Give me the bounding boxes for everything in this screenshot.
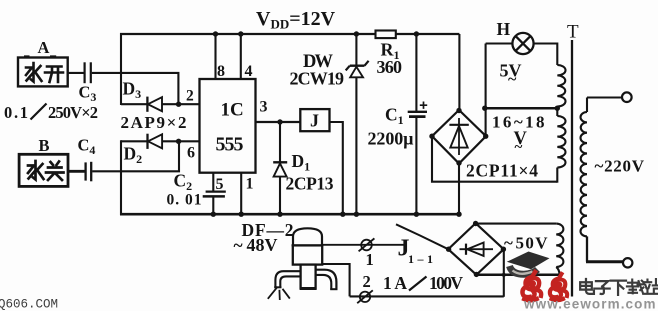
- label 水开 (water-on): [26, 63, 42, 82]
- wire lamp riser: [485, 44, 487, 109]
- node C1 rail junction: [414, 31, 419, 36]
- capacitor C4: [84, 162, 86, 180]
- svg-text:1–1: 1–1: [408, 252, 433, 266]
- wire bridge2 right to fuse: [503, 249, 505, 297]
- node bridge1 top: [456, 108, 461, 113]
- wire C3 to pin2 drop: [92, 73, 179, 104]
- wire C2 to ground: [212, 196, 214, 215]
- wire B to C4: [68, 170, 85, 173]
- terminal top: [622, 92, 632, 102]
- connector slash 1: [361, 240, 372, 251]
- bridge rectifier 2CP11x4 diamond: [432, 110, 486, 164]
- connector slash 2: [360, 292, 370, 302]
- node DW ground junction: [354, 212, 359, 217]
- wire primary bottom lead: [586, 260, 623, 263]
- svg-text:250V×2: 250V×2: [48, 103, 98, 122]
- diode inside bridge2: [460, 248, 494, 250]
- bell striker marks: [268, 287, 290, 300]
- node pin1 ground junction: [239, 212, 244, 217]
- label 水关 (water-off): [28, 161, 44, 180]
- svg-text:0.1: 0.1: [4, 103, 28, 122]
- capacitor C2: [206, 191, 226, 193]
- wire bridge1 AC left to winding bottom: [432, 136, 557, 182]
- wire bell top lead: [322, 244, 404, 246]
- svg-text:48V: 48V: [247, 235, 278, 255]
- lamp H: [512, 33, 533, 54]
- svg-text:B: B: [39, 136, 50, 155]
- switch A box top nubs: [24, 55, 56, 58]
- node tap left junction: [482, 106, 487, 111]
- svg-text:1: 1: [366, 250, 374, 269]
- switch A box: [18, 58, 68, 87]
- bell base line: [292, 244, 324, 246]
- wire 5V tap line: [485, 107, 558, 110]
- zener diode DW: [355, 34, 357, 65]
- capacitor C1 polarized: [415, 34, 417, 111]
- wire D2 cathode to ground rail: [120, 140, 122, 215]
- wire lamp right lead: [534, 42, 558, 44]
- svg-text:2: 2: [363, 272, 371, 291]
- svg-text:A: A: [38, 38, 50, 57]
- transformer core: [571, 40, 573, 297]
- svg-text:2CW19: 2CW19: [290, 69, 345, 89]
- svg-text:1: 1: [246, 175, 254, 192]
- op-amp U1 555 timer box: [200, 79, 256, 173]
- transformer winding 50V: [556, 224, 563, 267]
- svg-text:50V: 50V: [516, 234, 549, 253]
- diode D1: [279, 122, 281, 162]
- wire VDD-rail left drop to D3 cathode: [120, 33, 122, 105]
- watermark bug 2: [550, 274, 567, 300]
- svg-text:2: 2: [186, 88, 194, 105]
- wire VDD rail y=34: [120, 33, 459, 35]
- diode D3: [146, 97, 148, 112]
- node pin4 rail junction: [238, 31, 243, 36]
- svg-text:www.eeworm.com: www.eeworm.com: [523, 297, 658, 311]
- node bridge1 ground junction: [456, 212, 461, 217]
- diode inside bridge1: [458, 118, 460, 155]
- node D1 ground junction: [277, 212, 282, 217]
- svg-text:2CP13: 2CP13: [286, 174, 334, 194]
- node bridge2 right: [501, 247, 506, 252]
- node bridge2 left: [446, 247, 451, 252]
- resistor R1: [376, 31, 396, 39]
- svg-text:4: 4: [245, 63, 253, 80]
- wire ground rail: [120, 213, 459, 216]
- wire relay J to ground drop: [330, 122, 343, 215]
- wire pin 8 drop: [214, 34, 216, 79]
- svg-text:1C: 1C: [221, 100, 244, 121]
- wire bridge2 bottom to winding: [476, 274, 559, 277]
- wire D2 cathode stub: [121, 140, 148, 142]
- wire C4 to pin6 riser: [92, 141, 179, 172]
- svg-text:Q606.COM: Q606.COM: [0, 298, 58, 311]
- node D1 junction: [277, 119, 282, 124]
- wire pin 5 drop: [212, 173, 214, 191]
- transformer winding 16-18V upper: [556, 43, 558, 66]
- node bridge2 bottom: [474, 272, 479, 277]
- wire pin 3 to relay J: [256, 121, 301, 123]
- node C1 ground junction: [414, 212, 419, 217]
- svg-text:VDD=12V: VDD=12V: [256, 8, 336, 32]
- svg-text:555: 555: [216, 133, 244, 155]
- bell stem base: [300, 287, 317, 290]
- node bridge1 left: [429, 134, 434, 139]
- label C1 plus: [420, 102, 427, 109]
- node bridge2 top: [473, 221, 478, 226]
- bridge rectifier 2 diamond: [448, 223, 504, 275]
- wire bridge2 top to 50V winding: [476, 223, 557, 225]
- wire rail to bridge1 plus: [458, 34, 460, 110]
- switch blade 1-1: [396, 224, 448, 249]
- node pin2 junction: [176, 102, 181, 107]
- wire D2 anode to pin 6: [162, 140, 200, 142]
- wire A to C3: [68, 72, 84, 74]
- svg-text:5: 5: [216, 176, 224, 193]
- svg-text:6: 6: [187, 145, 195, 162]
- node relay ground junction: [340, 212, 345, 217]
- wire D3 anode to pin 2: [162, 103, 200, 105]
- transformer winding 16-18V lower: [556, 108, 558, 116]
- svg-text:8: 8: [217, 63, 225, 80]
- svg-text:2CP11×4: 2CP11×4: [466, 160, 538, 180]
- watermark cap: [507, 252, 550, 270]
- svg-text:~: ~: [504, 234, 513, 253]
- diode D2: [146, 134, 148, 149]
- wire D3 cathode stub: [121, 103, 147, 105]
- node fuse crossing: [502, 273, 506, 277]
- relay J box: [300, 109, 329, 131]
- node bridge1 bottom: [456, 160, 461, 165]
- wire bridge1 AC right riser: [485, 108, 487, 136]
- bell DF-2 dome: [293, 228, 322, 245]
- wire bridge1 minus to ground: [458, 164, 460, 216]
- bell stem: [301, 265, 316, 289]
- watermark bug 1: [522, 272, 541, 300]
- node DW rail junction: [354, 31, 359, 36]
- wire primary top lead: [587, 96, 622, 98]
- node pin8 rail junction: [213, 31, 218, 36]
- svg-text:~220V: ~220V: [595, 157, 645, 176]
- bell right horn: [316, 270, 337, 290]
- svg-text:~: ~: [515, 140, 523, 156]
- wire pin 1 drop: [240, 173, 242, 215]
- fuse wire 1A/100V: [350, 295, 504, 297]
- node bridge1 right: [483, 134, 488, 139]
- svg-text:3: 3: [260, 99, 268, 116]
- svg-text:100V: 100V: [429, 273, 463, 293]
- bell left horn: [275, 271, 300, 287]
- capacitor C3: [83, 62, 85, 83]
- node C2 ground junction: [211, 212, 216, 217]
- svg-text:T: T: [567, 22, 579, 43]
- svg-text:~: ~: [508, 71, 517, 88]
- wire lamp left lead: [486, 42, 513, 44]
- switch B box: [19, 154, 68, 186]
- svg-text:H: H: [497, 19, 511, 39]
- terminal bottom: [623, 258, 632, 267]
- svg-text:2200µ: 2200µ: [368, 128, 415, 148]
- wire pin 4 drop: [240, 34, 242, 79]
- watermark site name 电子下载站: [580, 279, 594, 294]
- node tap right junction: [555, 106, 560, 111]
- wire bell bottom lead: [322, 264, 350, 296]
- svg-text:~: ~: [234, 235, 243, 255]
- bell body: [293, 245, 322, 264]
- svg-text:360: 360: [377, 57, 403, 77]
- svg-text:J: J: [310, 111, 319, 131]
- svg-text:1A: 1A: [383, 273, 407, 293]
- node pin6 junction: [176, 139, 181, 144]
- transformer primary 220V winding: [586, 98, 588, 113]
